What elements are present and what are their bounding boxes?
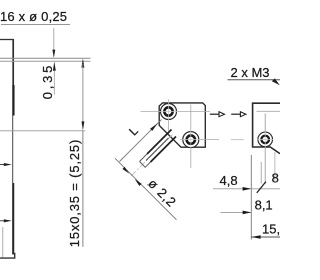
view arrow 1 (210, 112, 225, 117)
front view plate outline (159, 103, 205, 147)
left side view right edge middle thin segment (12, 116, 14, 184)
dimension 15x0,35 arrow up (81, 58, 84, 67)
label 2 x M3 leader arrow (272, 78, 280, 85)
side arrow upper (0, 163, 12, 166)
side arrow lower (0, 219, 12, 222)
dimension 8,1 line (221, 211, 252, 213)
left side view right edge lower thick segment (12, 183, 14, 255)
rear view plate outline (253, 103, 280, 153)
dimension diameter 2,2 arrow lower (135, 179, 142, 186)
projection centerline dashes (231, 139, 244, 141)
dimension 15x0,35 line (82, 64, 84, 125)
leader line (53, 28, 55, 50)
centerline hole2 horizontal (180, 139, 219, 141)
extension line lower (0, 130, 85, 132)
hole 3 centerline cross (257, 131, 273, 147)
screw hole 3 (258, 132, 273, 147)
left side view right edge upper thick segment (12, 39, 14, 85)
centerline hole1 vertical (168, 100, 170, 132)
screw hole 2 (183, 132, 199, 148)
left side view top edge (0, 39, 13, 41)
dimension diameter 2,2 arrow upper (122, 167, 129, 174)
dimension 8 tick (257, 182, 266, 193)
barrel upper tip edge (140, 154, 148, 162)
dimension 15,2 line (251, 236, 280, 238)
barrel upper edge (147, 130, 172, 155)
left side view inner edge (2, 227, 4, 257)
extension line x261 (260, 162, 262, 184)
dimension 4,8 arrow (243, 187, 252, 191)
pin row upper line (0, 57, 91, 59)
dimension 0,35 arrow up (53, 61, 56, 70)
barrel axis centerline (131, 135, 173, 177)
barrel tip end face (140, 162, 145, 167)
svg-text:15x0,35 = (5,25): 15x0,35 = (5,25) (67, 140, 82, 248)
dimension 4,8 line (213, 188, 280, 190)
svg-text:15,2: 15,2 (262, 221, 280, 236)
hole 2 centerline cross (182, 131, 200, 149)
screw hole 1 (161, 104, 177, 120)
label underline (1, 23, 70, 25)
extension line x273 (274, 152, 276, 181)
dimension diameter 2,2 line (115, 158, 177, 220)
svg-text:16 x ø 0,25: 16 x ø 0,25 (0, 9, 67, 24)
centerline hole2 vertical (190, 105, 192, 169)
svg-text:8: 8 (272, 170, 279, 185)
hole 1 centerline cross (160, 103, 178, 121)
view arrow 2 (231, 112, 246, 117)
barrel inner line (146, 138, 169, 161)
dimension 15,2 arrow (251, 235, 260, 239)
svg-text:4,8: 4,8 (220, 173, 238, 188)
dimension 0,35 line below (53, 71, 55, 95)
dimension L arrow (150, 123, 158, 130)
pin row lower line (0, 60, 91, 62)
dimension 15x0,35 arrow down (82, 121, 85, 130)
left side view bottom step (0, 254, 15, 259)
svg-text:2 x M3: 2 x M3 (231, 65, 270, 80)
dimension L line (120, 120, 162, 162)
extension line x251 (250, 155, 252, 240)
svg-text:8,1: 8,1 (255, 198, 273, 213)
rear view centerline vertical (264, 114, 266, 185)
dimension 8,1 arrow (243, 211, 252, 215)
centerline hole1 horizontal (141, 111, 211, 113)
label 2 x M3 underline (228, 79, 281, 81)
leader arrow down (52, 50, 55, 58)
dimension 15x0,35 extension below (82, 131, 84, 247)
rear view centerline horizontal (257, 110, 281, 112)
svg-text:0,35: 0,35 (40, 63, 55, 100)
barrel lower edge (151, 137, 177, 163)
barrel lower tip edge (145, 162, 151, 168)
